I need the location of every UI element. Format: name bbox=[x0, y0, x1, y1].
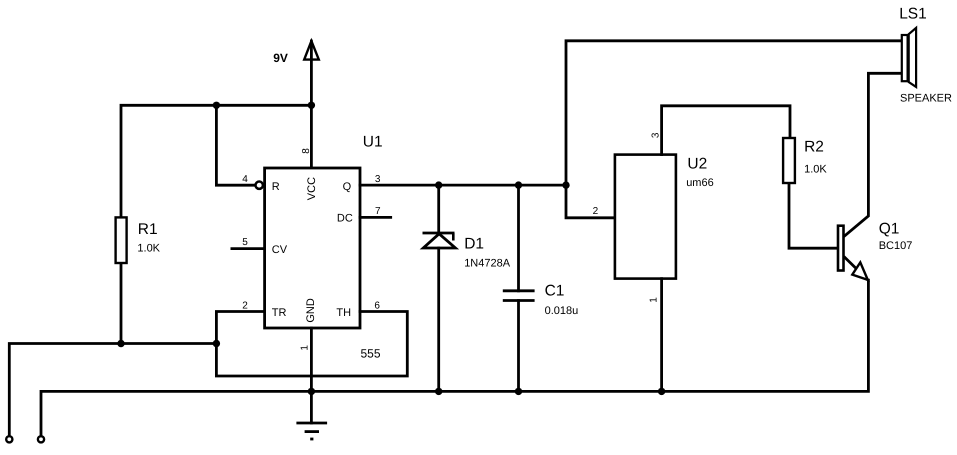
resistor R1 bbox=[116, 217, 127, 263]
capacitor C1 bbox=[503, 185, 535, 391]
wire: R2 bottom to Q1 base bbox=[789, 184, 837, 248]
svg-text:4: 4 bbox=[242, 174, 248, 185]
node: bus / D1 bbox=[435, 388, 442, 395]
IC U1 555 timer box bbox=[265, 168, 360, 328]
terminal J2 bbox=[38, 436, 44, 442]
wire: U2 pin 3 up and over to R2 bbox=[662, 106, 790, 155]
wire: U1 GND pin 1 down to bus and ground bbox=[310, 328, 313, 423]
LS1 cone bbox=[909, 28, 916, 87]
svg-text:8: 8 bbox=[301, 148, 312, 154]
node: bus / C1 bbox=[515, 388, 522, 395]
svg-text:BC107: BC107 bbox=[879, 240, 913, 252]
wire: C1 bottom lead bbox=[517, 301, 520, 392]
wire: ground bus from terminal J2 to Q1 emitter bbox=[41, 280, 868, 436]
svg-text:D1: D1 bbox=[464, 236, 484, 253]
wire: top-left horizontal from R1 top to 9V node bbox=[121, 105, 311, 216]
D1 anode triangle bbox=[423, 234, 455, 248]
node: bus / U1 GND bbox=[308, 388, 315, 395]
svg-text:DC: DC bbox=[337, 213, 353, 225]
wire: pin 4 reset wire from top wire down to bubble bbox=[216, 105, 255, 185]
svg-text:GND: GND bbox=[305, 298, 317, 323]
IC U2 um66 box bbox=[615, 155, 676, 279]
wire: D1 top lead bbox=[437, 185, 440, 233]
wire: left input horizontal from terminal J1 to TR branch bbox=[9, 344, 216, 437]
svg-text:C1: C1 bbox=[545, 282, 565, 299]
wire: U2 pin 1 down to bus bbox=[660, 279, 663, 392]
node: Q wire / C1 bbox=[515, 181, 522, 188]
wire: D1 bottom lead bbox=[437, 248, 440, 391]
power 9V vertical wire through arrow down to U1 VCC pin 8 bbox=[310, 41, 313, 168]
node: top wire / 9V supply bbox=[308, 102, 315, 109]
C1 top plate bbox=[503, 289, 535, 292]
wire: node from Q output up to speaker wire and down to U2 pin 2 bbox=[566, 41, 901, 218]
C1 bottom plate bbox=[503, 299, 535, 302]
svg-text:1: 1 bbox=[649, 297, 660, 303]
svg-text:U2: U2 bbox=[687, 155, 707, 172]
svg-text:um66: um66 bbox=[686, 177, 714, 189]
svg-text:Q1: Q1 bbox=[879, 221, 900, 238]
svg-text:SPEAKER: SPEAKER bbox=[900, 93, 952, 105]
LS1 body rect bbox=[902, 35, 908, 81]
wire: C1 top lead bbox=[517, 185, 520, 291]
speaker LS1 bbox=[902, 28, 916, 87]
svg-text:3: 3 bbox=[650, 132, 661, 138]
wire: R1 bottom lead bbox=[120, 264, 123, 343]
node: Q wire / speaker branch bbox=[562, 181, 569, 188]
svg-text:6: 6 bbox=[374, 301, 380, 312]
svg-text:TH: TH bbox=[336, 307, 351, 319]
wire: TR-TH loop around bottom of U1 bbox=[216, 312, 407, 377]
svg-text:VCC: VCC bbox=[306, 177, 318, 200]
svg-text:0.018u: 0.018u bbox=[545, 305, 579, 317]
Q1 emitter arrowhead bbox=[852, 262, 868, 280]
D1 zener tick bbox=[452, 233, 455, 241]
pin 4 inverting bubble bbox=[256, 182, 263, 189]
svg-text:3: 3 bbox=[375, 174, 381, 185]
wire: pin 5 CV stub bbox=[232, 247, 265, 250]
D1 cathode bar bbox=[423, 232, 455, 235]
svg-text:Q: Q bbox=[343, 181, 352, 193]
svg-text:TR: TR bbox=[272, 307, 287, 319]
svg-text:2: 2 bbox=[242, 301, 248, 312]
node: left wire / TR branch bbox=[213, 340, 220, 347]
diode D1 zener bbox=[423, 185, 456, 391]
svg-text:LS1: LS1 bbox=[899, 5, 927, 22]
power symbol 9V arrow bbox=[304, 41, 319, 60]
Q1 collector bbox=[845, 73, 901, 235]
ground symbol bbox=[296, 423, 327, 439]
Q1 emitter bbox=[845, 258, 868, 280]
wire: Q output pin 3 horizontal bbox=[360, 184, 566, 187]
node: top wire / pin4 branch bbox=[213, 102, 220, 109]
svg-text:R2: R2 bbox=[804, 139, 824, 156]
svg-text:1N4728A: 1N4728A bbox=[464, 257, 511, 269]
svg-text:555: 555 bbox=[360, 347, 380, 361]
svg-text:7: 7 bbox=[375, 206, 381, 217]
svg-text:R: R bbox=[272, 181, 280, 193]
svg-text:9V: 9V bbox=[273, 51, 288, 65]
svg-text:U1: U1 bbox=[363, 134, 383, 151]
svg-text:5: 5 bbox=[242, 237, 248, 248]
svg-text:2: 2 bbox=[593, 206, 599, 217]
svg-text:1.0K: 1.0K bbox=[137, 242, 160, 254]
node: Q wire / D1 bbox=[435, 181, 442, 188]
node: bus / U2 pin 1 bbox=[658, 388, 665, 395]
wire: DC pin 7 stub bbox=[360, 216, 391, 219]
terminal J1 bbox=[6, 436, 12, 442]
transistor Q1 bbox=[838, 73, 901, 280]
svg-text:R1: R1 bbox=[138, 221, 158, 238]
svg-text:1.0K: 1.0K bbox=[804, 163, 827, 175]
svg-text:1: 1 bbox=[300, 345, 311, 351]
node: R1 bottom / left wire bbox=[117, 340, 124, 347]
svg-text:CV: CV bbox=[272, 244, 288, 256]
Q1 base bar bbox=[838, 226, 844, 271]
resistor R2 bbox=[783, 138, 795, 183]
